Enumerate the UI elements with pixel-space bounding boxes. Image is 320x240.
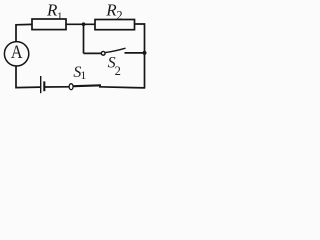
wire: top-left horizontal from corner to R1 <box>16 24 32 41</box>
battery short plate <box>43 81 45 91</box>
wire: left side below ammeter <box>16 66 40 88</box>
wire: S2 branch right horizontal to node B <box>125 52 145 54</box>
ammeter A1 circle <box>4 42 28 66</box>
wire: S2 branch left horizontal <box>84 52 102 54</box>
svg-text:2: 2 <box>115 64 121 78</box>
battery long plate <box>40 76 42 93</box>
svg-text:1: 1 <box>81 70 87 82</box>
resistor R1 <box>32 19 66 30</box>
switch S2 blade (open) <box>105 48 125 52</box>
wire: R2 to top-right corner and right side down <box>135 24 145 88</box>
node A junction dot <box>82 22 86 26</box>
svg-text:1: 1 <box>57 10 63 22</box>
node B junction dot <box>143 51 147 55</box>
wire: S2 branch vertical from node A <box>83 24 85 53</box>
switch S2 pivot circle <box>101 51 105 55</box>
resistor R2 <box>95 20 135 30</box>
switch S1 pivot circle <box>69 84 73 90</box>
wire: S1 to bottom-right corner <box>99 87 145 88</box>
wire: R1 to junction A to R2 <box>66 23 95 25</box>
svg-text:2: 2 <box>116 8 122 22</box>
wire: battery to switch S1 <box>44 86 68 88</box>
switch S1 blade (closed, lies on wire) <box>74 84 101 87</box>
svg-text:R: R <box>105 0 117 19</box>
svg-text:A: A <box>11 41 23 63</box>
